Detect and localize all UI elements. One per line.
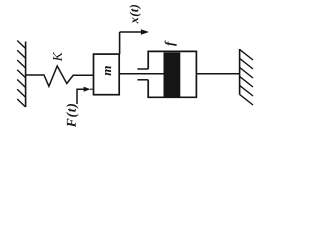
damper gland lips bbox=[137, 68, 148, 70]
F(t) arrowhead bbox=[84, 87, 91, 92]
F(t) wire bbox=[77, 89, 85, 104]
right wall line bbox=[239, 49, 241, 95]
damper cylinder (open slot on left wall) bbox=[148, 51, 196, 97]
left wall line bbox=[25, 42, 27, 108]
label f bbox=[165, 41, 177, 46]
spring K bbox=[26, 66, 94, 86]
label x(t) bbox=[130, 5, 141, 24]
label K bbox=[53, 52, 62, 62]
x(t) arrow bbox=[120, 31, 143, 33]
label F(t) bbox=[66, 104, 78, 127]
mass m rectangle bbox=[94, 54, 120, 95]
rod from cylinder to right wall bbox=[196, 73, 239, 75]
wire (arrow tip to mass) bbox=[90, 88, 93, 90]
label m bbox=[105, 66, 111, 75]
x(t) riser wire bbox=[119, 32, 121, 54]
right wall hatching bbox=[240, 49, 253, 105]
damper rod from mass bbox=[120, 73, 164, 75]
left wall hatching bbox=[17, 41, 25, 108]
damper piston (filled) bbox=[164, 52, 181, 96]
